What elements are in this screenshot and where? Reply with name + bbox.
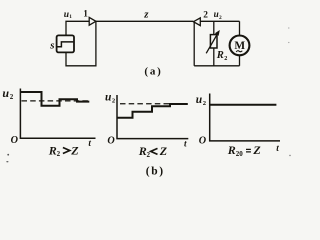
- svg-text:Z: Z: [159, 144, 168, 158]
- resistor R2 (variable): [206, 21, 220, 66]
- svg-text:s: s: [49, 39, 54, 51]
- graph 3 waveform u2(t) flat for R20=Z: [210, 104, 277, 106]
- terminal 2 (triangle): [193, 18, 200, 26]
- svg-text:M: M: [234, 40, 245, 52]
- wire top right: [200, 20, 239, 22]
- svg-text:t: t: [88, 138, 91, 148]
- svg-text:R: R: [138, 144, 147, 158]
- scan speck: [6, 161, 8, 162]
- svg-text:t: t: [276, 143, 279, 153]
- svg-text:u: u: [214, 9, 219, 19]
- svg-text:(a): (a): [144, 66, 162, 78]
- scan speck: [7, 154, 9, 156]
- graph 3 axes: [210, 94, 280, 141]
- svg-text:R: R: [48, 143, 57, 157]
- svg-text:(b): (b): [146, 165, 165, 177]
- svg-text:20: 20: [236, 150, 244, 158]
- svg-text:2: 2: [219, 15, 222, 21]
- graph 2 dashed steady-state line: [120, 103, 188, 105]
- scan speck: [288, 27, 289, 28]
- scan speck: [288, 42, 289, 43]
- svg-text:2: 2: [224, 55, 227, 62]
- svg-text:2: 2: [10, 93, 14, 101]
- svg-text:R: R: [216, 50, 224, 61]
- graph 1 waveform u2(t) for R2>Z: [20, 92, 89, 106]
- graph 1 axes: [20, 89, 95, 139]
- scan speck: [289, 155, 290, 156]
- source S (pulse source box with step symbol): [57, 35, 74, 52]
- svg-text:O: O: [11, 135, 19, 146]
- wire z (transmission line): [96, 20, 193, 22]
- wire left drop of load loop: [193, 22, 195, 66]
- svg-text:O: O: [107, 136, 115, 147]
- svg-text:2: 2: [203, 11, 208, 21]
- svg-text:Z: Z: [70, 143, 79, 157]
- svg-text:Z: Z: [252, 143, 261, 157]
- svg-text:R: R: [227, 143, 236, 157]
- svg-text:1: 1: [69, 14, 72, 20]
- wire from source top to terminal 1: [66, 21, 89, 35]
- graph 2 axes: [117, 95, 188, 139]
- svg-text:1: 1: [83, 9, 88, 19]
- wire return loop of source side: [66, 21, 96, 66]
- graph 2 waveform u2(t) for R2<Z: [117, 104, 188, 118]
- motor M: [230, 21, 250, 66]
- svg-text:O: O: [199, 135, 207, 146]
- svg-text:z: z: [143, 9, 149, 21]
- svg-text:u: u: [2, 86, 9, 100]
- terminal 1 (triangle): [89, 17, 96, 25]
- graph 1 dashed steady-state line: [22, 100, 90, 102]
- svg-text:2: 2: [147, 151, 151, 159]
- svg-text:t: t: [184, 138, 187, 148]
- svg-text:2: 2: [57, 150, 61, 158]
- wire bottom of load loop: [194, 65, 239, 67]
